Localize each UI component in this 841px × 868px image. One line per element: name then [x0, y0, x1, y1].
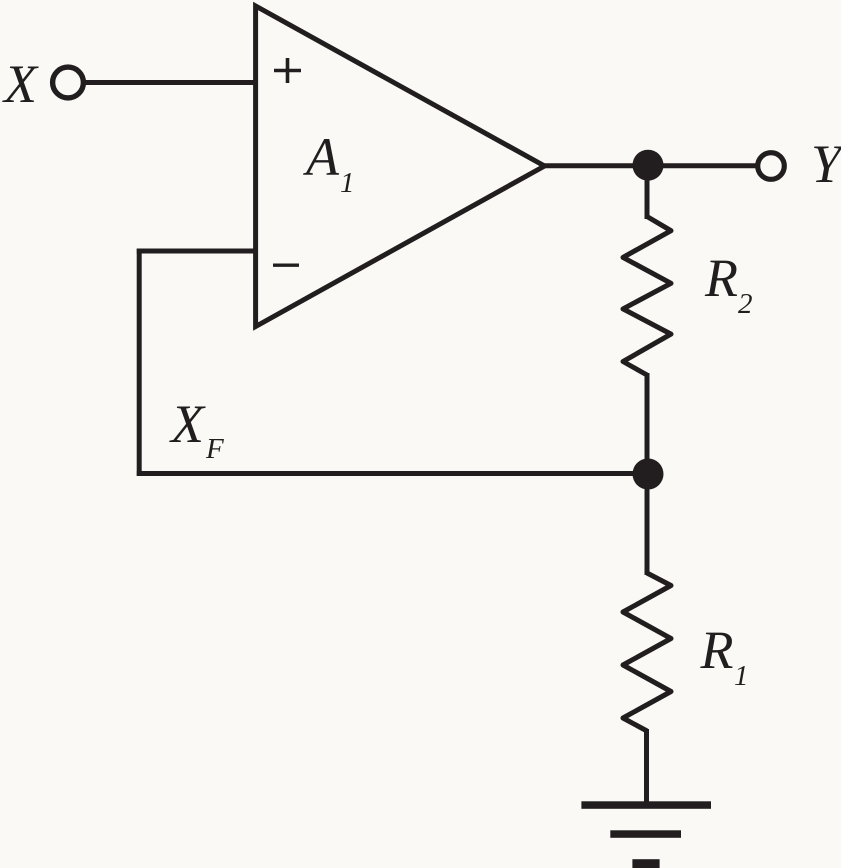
svg-text:R: R	[704, 248, 738, 308]
svg-text:F: F	[205, 433, 224, 465]
svg-text:1: 1	[734, 660, 749, 692]
svg-text:R: R	[700, 620, 734, 680]
op-amp minus sign	[273, 264, 299, 267]
op-amp plus sign	[274, 58, 301, 83]
resistor R2 zigzag	[623, 217, 671, 376]
resistor R1 zigzag	[623, 573, 671, 731]
wire input X to op-amp +	[82, 80, 258, 85]
svg-text:Y: Y	[811, 134, 841, 194]
wire R1 bottom to ground	[644, 729, 649, 804]
wire feedback horizontal to node XF	[137, 471, 648, 476]
wire node Y down to R2	[645, 166, 650, 219]
svg-text:X: X	[2, 54, 39, 114]
wire R2 bottom to node XF	[645, 373, 650, 474]
op-amp A1 triangle body	[256, 6, 545, 327]
svg-text:A: A	[303, 127, 340, 187]
svg-text:X: X	[169, 394, 206, 454]
wire op-amp output	[544, 163, 757, 168]
junction node XF	[633, 459, 664, 490]
svg-text:1: 1	[340, 167, 355, 199]
ground symbol	[581, 801, 711, 868]
wire op-amp inverting input (horizontal to - pin)	[137, 249, 258, 254]
svg-text:2: 2	[738, 288, 753, 320]
wire node XF down to R1	[645, 474, 650, 576]
terminal circle input X	[53, 67, 84, 98]
terminal circle output Y	[758, 153, 785, 180]
junction node at output Y	[633, 150, 664, 181]
wire feedback vertical	[137, 249, 142, 476]
